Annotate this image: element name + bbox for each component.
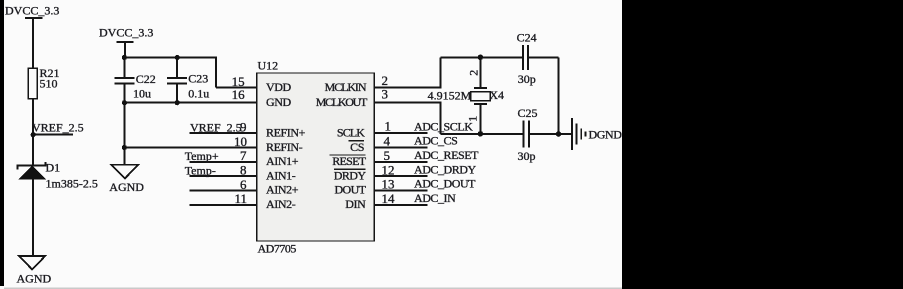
svg-text:REFIN+: REFIN+ <box>266 126 306 140</box>
svg-text:DVCC_3.3: DVCC_3.3 <box>99 26 153 40</box>
svg-text:REFIN-: REFIN- <box>266 140 303 154</box>
svg-text:DOUT: DOUT <box>334 183 366 197</box>
svg-text:6: 6 <box>240 177 247 192</box>
svg-text:VREF_2.5: VREF_2.5 <box>190 120 242 134</box>
bottom gray line <box>4 288 622 289</box>
svg-text:AGND: AGND <box>17 271 52 285</box>
power flag DVCC_3.3 left <box>25 17 43 19</box>
junction pin10 AGND <box>122 145 127 150</box>
junction crystal top <box>478 55 484 61</box>
wire pin1 ADC_SCLK stub <box>374 132 427 134</box>
svg-text:13: 13 <box>382 177 395 192</box>
svg-text:SCLK: SCLK <box>337 126 365 140</box>
svg-text:ADC_CS: ADC_CS <box>414 134 457 148</box>
wire pin9 REFIN+ <box>190 132 257 134</box>
svg-text:RESET: RESET <box>332 154 367 168</box>
node VREF_2.5 junction <box>31 132 36 137</box>
svg-text:C22: C22 <box>136 72 156 86</box>
svg-text:ADC_SCLK: ADC_SCLK <box>414 119 473 133</box>
svg-text:5: 5 <box>384 148 391 163</box>
IC pin names right <box>316 80 368 211</box>
svg-text:0.1u: 0.1u <box>188 86 209 100</box>
wire VREF_2.5 stub <box>33 134 73 136</box>
svg-text:DRDY: DRDY <box>334 168 367 182</box>
overline DRDY <box>334 168 365 170</box>
svg-text:4.9152M: 4.9152M <box>428 89 472 103</box>
junction C24 branch <box>556 131 562 137</box>
ground AGND middle triangle <box>111 165 138 179</box>
svg-text:AGND: AGND <box>109 180 144 194</box>
svg-text:ADC_RESET: ADC_RESET <box>414 148 479 162</box>
svg-text:VDD: VDD <box>266 80 292 94</box>
power flag DVCC_3.3 middle <box>117 41 134 43</box>
wire pin11 <box>190 204 257 206</box>
svg-text:ADC_DRDY: ADC_DRDY <box>414 162 477 176</box>
overline RESET <box>330 154 366 156</box>
junction crystal bottom <box>478 131 484 137</box>
wire DVCC to R21 <box>32 18 34 68</box>
wire pin15 VDD <box>216 87 257 89</box>
svg-text:Temp-: Temp- <box>185 163 216 177</box>
svg-text:C25: C25 <box>518 106 538 120</box>
svg-text:MCLKOUT: MCLKOUT <box>316 95 368 109</box>
wire D1 to AGND <box>32 180 34 256</box>
wire top rail <box>124 58 216 88</box>
svg-text:4: 4 <box>384 134 391 149</box>
junction gnd C22 <box>122 100 127 105</box>
wire pin6 <box>190 189 257 191</box>
svg-text:30p: 30p <box>518 149 536 163</box>
pin numbers left <box>232 74 247 206</box>
wire AGND drop <box>123 103 125 165</box>
wire pin5 ADC_RESET stub <box>374 161 427 163</box>
svg-text:X4: X4 <box>489 88 504 102</box>
svg-text:AIN2+: AIN2+ <box>266 183 299 197</box>
svg-text:DGND: DGND <box>589 127 623 141</box>
wire R21 to D1 <box>32 99 34 166</box>
wire crystal bottom rail <box>440 133 523 135</box>
svg-text:VREF_2.5: VREF_2.5 <box>32 120 84 134</box>
wire pin10 REFIN- <box>124 147 256 149</box>
svg-text:AIN2-: AIN2- <box>266 197 296 211</box>
svg-text:DIN: DIN <box>345 197 366 211</box>
svg-text:510: 510 <box>40 77 58 91</box>
svg-text:ADC_IN: ADC_IN <box>414 191 456 205</box>
wire crystal top rail <box>440 56 523 58</box>
wire C24 branch down <box>558 57 560 134</box>
svg-text:12: 12 <box>382 162 395 177</box>
resistor R21 <box>28 68 37 98</box>
svg-text:AD7705: AD7705 <box>258 242 297 256</box>
svg-text:8: 8 <box>240 163 247 178</box>
overline CS <box>348 140 364 142</box>
svg-text:MCLKIN: MCLKIN <box>325 80 367 94</box>
white schematic background <box>0 0 622 289</box>
svg-text:11: 11 <box>234 191 247 206</box>
svg-text:DVCC_3.3: DVCC_3.3 <box>5 4 59 18</box>
diode D1 triangle <box>18 166 46 180</box>
IC U12 AD7705 body <box>257 73 375 241</box>
svg-text:C24: C24 <box>517 30 537 44</box>
svg-text:C23: C23 <box>188 71 208 85</box>
svg-text:14: 14 <box>382 191 396 206</box>
svg-text:U12: U12 <box>258 58 279 72</box>
svg-text:16: 16 <box>232 87 246 102</box>
capacitor C23 <box>167 58 187 103</box>
black left stripe <box>0 0 4 286</box>
svg-text:30p: 30p <box>518 72 536 86</box>
wire pin2 MCLKIN <box>374 57 440 87</box>
IC pin names left <box>266 80 306 211</box>
wire pin7 Temp+ <box>190 161 257 163</box>
junction gnd C23 <box>175 100 180 105</box>
pin numbers right <box>382 73 396 206</box>
junction rail C22 <box>122 55 127 60</box>
junction rail C23 <box>175 55 180 60</box>
wire pin8 Temp- <box>190 175 257 177</box>
svg-text:1: 1 <box>385 118 392 133</box>
capacitor C25 <box>524 120 559 147</box>
svg-text:CS: CS <box>350 140 364 154</box>
wire pin3 MCLKOUT <box>374 102 440 134</box>
svg-text:AIN1-: AIN1- <box>266 168 296 182</box>
crystal X4 <box>471 57 490 134</box>
wire pin4 ADC_CS stub <box>374 147 427 149</box>
capacitor C22 <box>115 58 135 103</box>
svg-text:AIN1+: AIN1+ <box>266 154 299 168</box>
svg-text:10u: 10u <box>133 86 151 100</box>
svg-text:10: 10 <box>234 134 247 149</box>
svg-text:D1: D1 <box>46 160 61 174</box>
svg-text:3: 3 <box>382 87 389 102</box>
svg-text:9: 9 <box>240 119 247 134</box>
svg-text:1m385-2.5: 1m385-2.5 <box>46 177 98 191</box>
junction dots <box>31 55 562 151</box>
wire to DGND <box>559 133 572 135</box>
svg-text:2: 2 <box>467 70 481 76</box>
wire pin14 ADC_IN stub <box>374 204 427 206</box>
svg-text:ADC_DOUT: ADC_DOUT <box>414 177 476 191</box>
capacitor C24 <box>523 45 559 70</box>
diode D1 zener cathode bar <box>18 162 46 170</box>
wire pin13 ADC_DOUT stub <box>374 189 427 191</box>
wire pin16 GND <box>124 102 256 104</box>
ground AGND left triangle <box>19 256 45 269</box>
svg-text:7: 7 <box>240 148 247 163</box>
svg-text:GND: GND <box>266 95 292 109</box>
wire DVCC drop <box>124 42 126 57</box>
svg-text:Temp+: Temp+ <box>185 149 219 163</box>
ground DGND bars <box>572 118 586 150</box>
wire pin12 ADC_DRDY stub <box>374 175 427 177</box>
black right region <box>622 0 903 289</box>
